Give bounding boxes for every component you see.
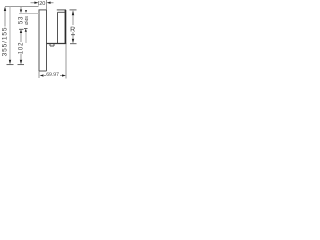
svg-text:69.97: 69.97	[46, 72, 59, 78]
svg-text:20: 20	[39, 1, 45, 7]
svg-text:R: R	[70, 27, 75, 34]
svg-text:Ø48: Ø48	[24, 16, 29, 25]
svg-text:355/155: 355/155	[2, 27, 9, 57]
svg-text:102: 102	[18, 42, 24, 54]
